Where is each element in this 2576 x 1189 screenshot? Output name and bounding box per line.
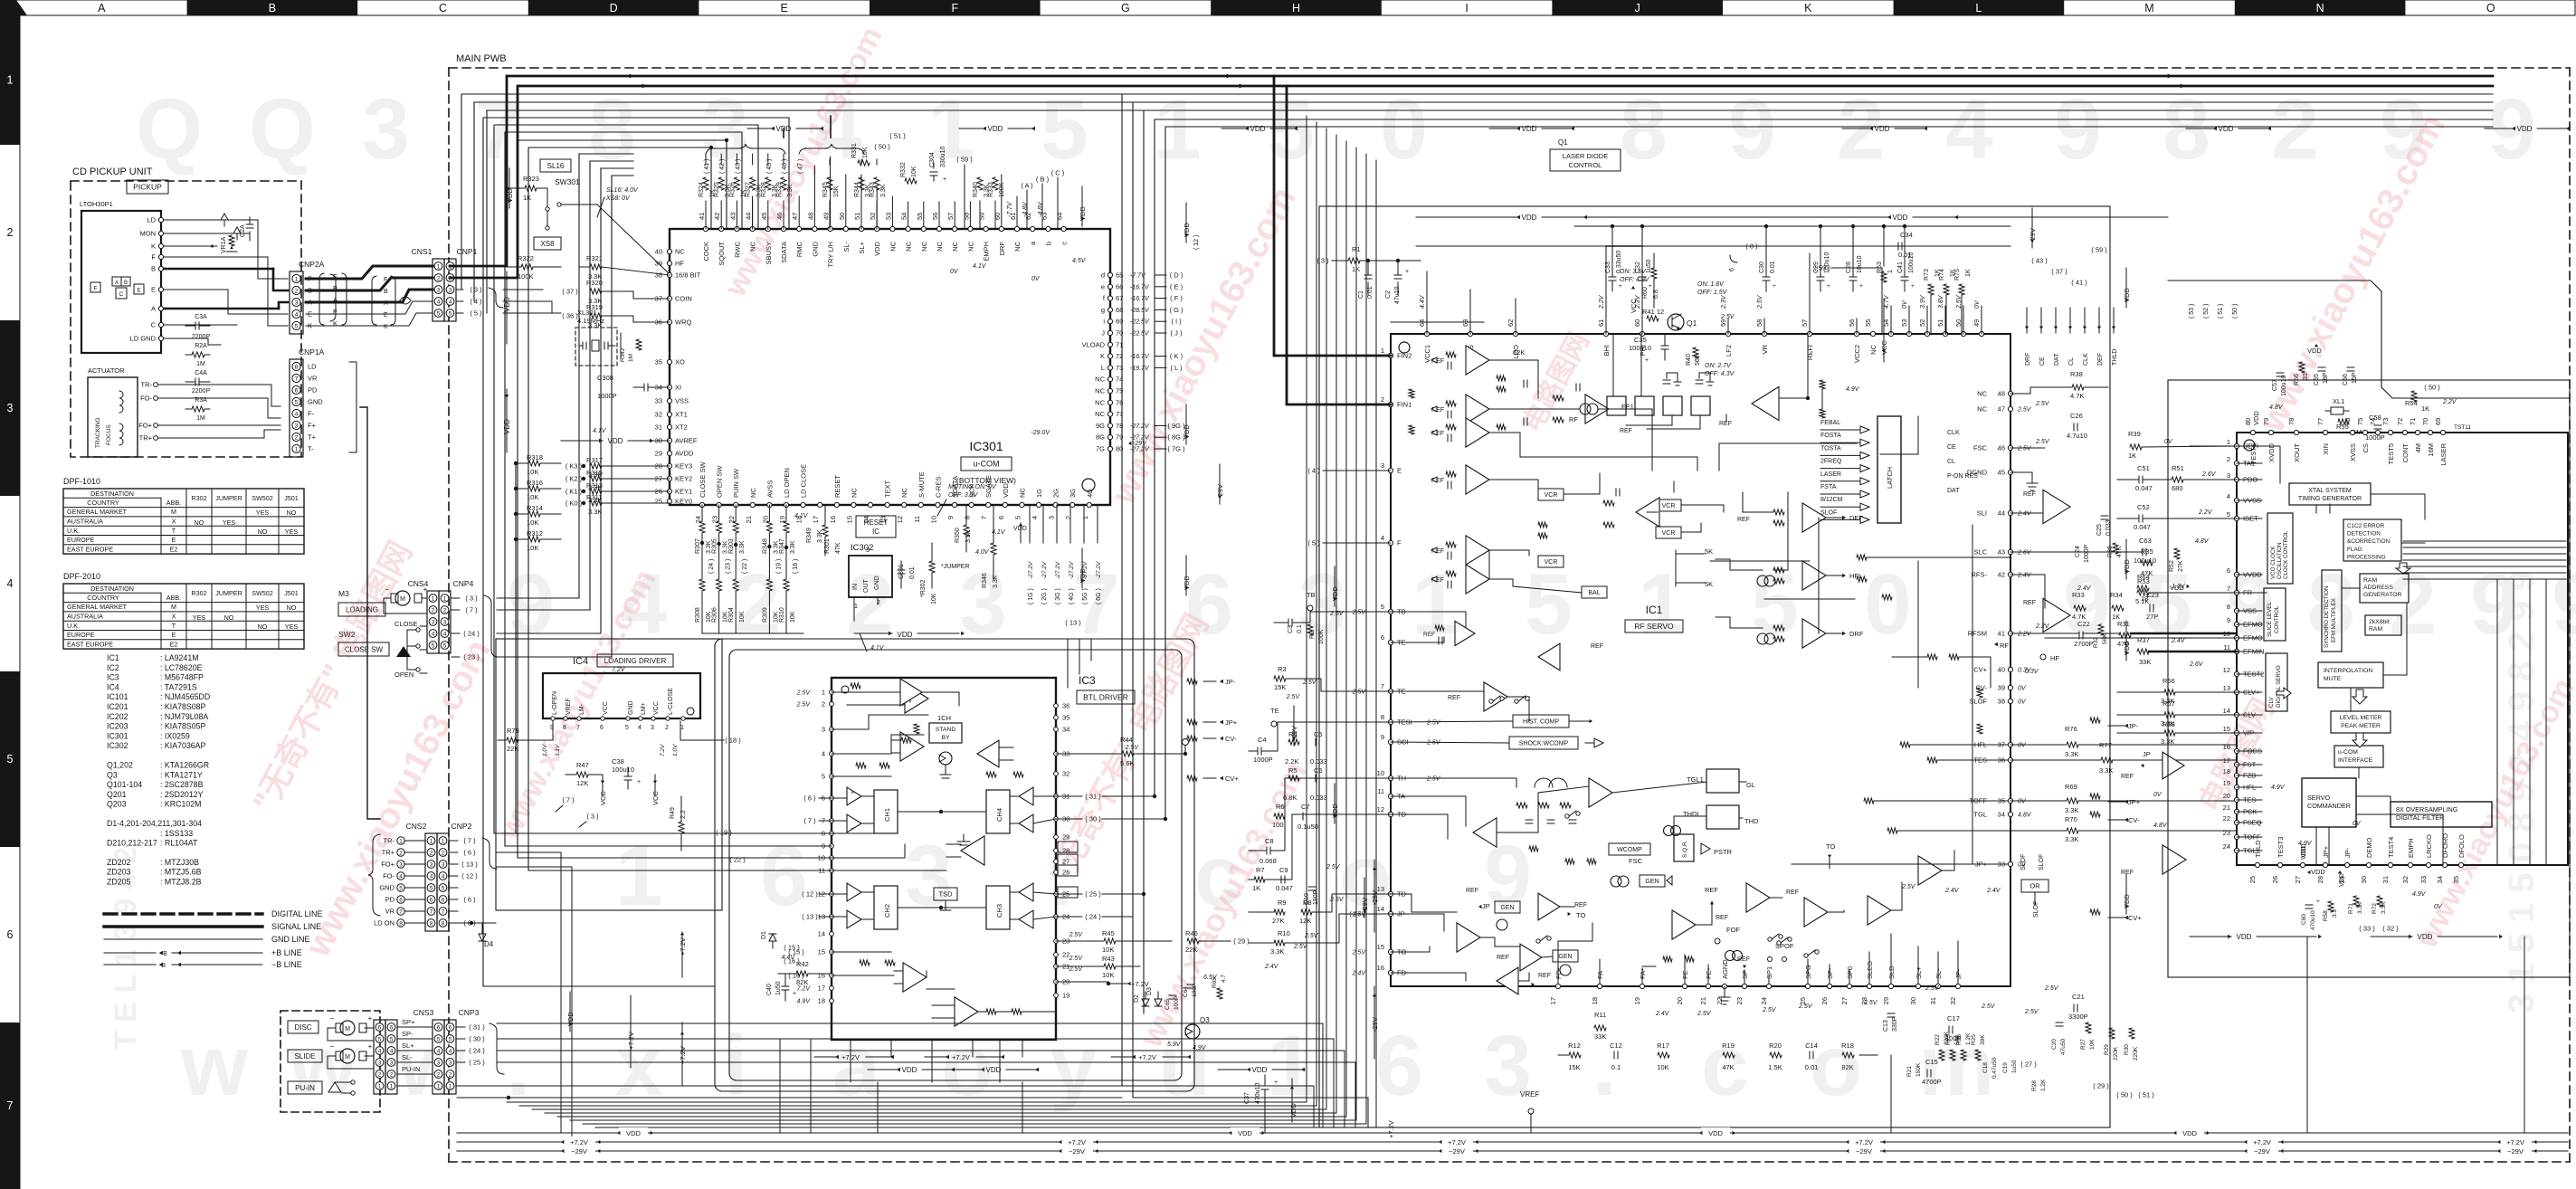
svg-text:LOADING DRIVER: LOADING DRIVER (604, 657, 667, 665)
svg-text:C: C (151, 321, 157, 329)
svg-text:TR-: TR- (141, 381, 153, 389)
svg-text:OFF: 1.5V: OFF: 1.5V (1697, 290, 1728, 296)
svg-text:2.5V: 2.5V (1720, 314, 1735, 320)
svg-text:FE: FE (1681, 970, 1689, 979)
svg-text:g: g (1101, 306, 1105, 314)
svg-text:EMPH: EMPH (2407, 838, 2415, 858)
cap gnd symbols above DACs (1663, 373, 1714, 385)
svg-text:: MTZJ5.6B: : MTZJ5.6B (160, 868, 202, 877)
svg-text:COUNTRY: COUNTRY (87, 594, 119, 602)
svg-text:T: T (172, 622, 176, 630)
svg-text:32: 32 (655, 411, 662, 419)
svg-text:9: 9 (1381, 733, 1384, 741)
sheet left ruler (0, 15, 20, 1189)
connector CNP1A (290, 347, 356, 457)
svg-text:( 27 ): ( 27 ) (2020, 1061, 2037, 1069)
svg-text:12: 12 (2223, 666, 2230, 674)
svg-text:A: A (98, 2, 106, 14)
KEY riser (515, 463, 517, 833)
svg-text:SPG: SPG (1804, 965, 1812, 979)
svg-text:( G ): ( G ) (1170, 306, 1183, 314)
svg-text:1M: 1M (628, 354, 634, 362)
svg-text:-27.2V: -27.2V (1055, 561, 1061, 579)
svg-text:B: B (124, 281, 128, 286)
svg-text:10K: 10K (1657, 1063, 1668, 1071)
svg-text:( 24 ): ( 24 ) (708, 559, 715, 574)
DEF HFL DRF opamps (1705, 503, 1864, 648)
IC2 left pins 1-24 (2223, 438, 2265, 855)
svg-text:2.4V: 2.4V (1655, 1011, 1670, 1017)
svg-text:0V: 0V (1974, 300, 1981, 309)
svg-text:CONT: CONT (2401, 443, 2410, 463)
svg-text:SLIDE: SLIDE (294, 1052, 315, 1061)
svg-text:0V: 0V (1902, 300, 1908, 309)
svg-text:R21: R21 (1906, 1066, 1913, 1077)
svg-text:SL+: SL+ (1915, 966, 1923, 979)
svg-text:100u10: 100u10 (1629, 344, 1651, 352)
riser bundle wire 5 (1165, 127, 2493, 819)
vertical VDD labels (506, 168, 2131, 1032)
svg-text:−29V: −29V (2254, 1147, 2270, 1156)
svg-text:U.K.: U.K. (67, 622, 80, 630)
svg-text:VDD: VDD (2252, 411, 2260, 425)
svg-text:RF: RF (1569, 415, 1578, 423)
svg-text:4: 4 (449, 1048, 452, 1054)
svg-text:( 29 ): ( 29 ) (2093, 1082, 2109, 1090)
svg-text:( 23 ): ( 23 ) (463, 653, 480, 661)
IC3 TSD (934, 888, 957, 910)
svg-text:R53: R53 (2137, 577, 2150, 585)
svg-text:E: E (172, 631, 176, 639)
svg-text:DFORO: DFORO (2441, 833, 2449, 858)
svg-text:18: 18 (2223, 767, 2230, 775)
svg-text:C19: C19 (2002, 1062, 2009, 1073)
svg-text:0V: 0V (2018, 699, 2027, 706)
svg-text:1: 1 (378, 1083, 382, 1089)
svg-text:SYNCHRO DETECTION: SYNCHRO DETECTION (2324, 586, 2330, 648)
svg-text:4.5V: 4.5V (1072, 258, 1087, 264)
svg-text:R31: R31 (2117, 620, 2130, 628)
svg-text:R60: R60 (1642, 287, 1649, 299)
svg-text:NC: NC (920, 241, 928, 251)
disc slide unit outline (280, 1011, 380, 1112)
svg-text:5: 5 (295, 323, 299, 329)
svg-text:4.1V: 4.1V (870, 645, 885, 652)
svg-text:0.047: 0.047 (1276, 884, 1293, 892)
svg-text:2700P: 2700P (2074, 640, 2094, 648)
IC3 opamp bottom2 (932, 997, 978, 1026)
svg-text:R6: R6 (1276, 803, 1285, 811)
svg-text:+: + (1274, 1080, 1278, 1086)
svg-text:PROCESSING: PROCESSING (2347, 554, 2386, 560)
svg-text:VDD: VDD (1893, 214, 1908, 222)
connector CNS2 CNP2 (406, 822, 472, 931)
svg-text:R47: R47 (576, 761, 589, 769)
PU-IN label (288, 1081, 322, 1094)
svg-text:0V: 0V (950, 269, 959, 275)
svg-text:+: + (368, 1014, 373, 1023)
svg-text:C308: C308 (597, 374, 613, 382)
svg-text:27P: 27P (2146, 613, 2158, 621)
svg-text:( E ): ( E ) (1170, 282, 1183, 290)
svg-text:( 3G ): ( 3G ) (1055, 588, 1061, 604)
svg-text:CV+: CV+ (1225, 775, 1239, 783)
svg-text:VCC: VCC (653, 701, 660, 715)
VDD bottom arrows IC301 (854, 631, 965, 652)
svg-text:680: 680 (2172, 484, 2183, 492)
svg-text:R66: R66 (2163, 677, 2175, 685)
svg-text:36: 36 (1062, 702, 1069, 710)
svg-text:( 24 ): ( 24 ) (463, 630, 480, 638)
svg-text:4: 4 (2227, 492, 2230, 500)
JP CV terminal arrows (1187, 678, 1239, 783)
svg-text:VDD: VDD (1238, 1129, 1252, 1137)
svg-text:NC: NC (1977, 405, 1987, 414)
svg-text:NC: NC (850, 488, 858, 498)
IC1 internal input opamps column (1431, 346, 1525, 594)
svg-text:EMPH: EMPH (983, 242, 991, 262)
svg-text:VCC: VCC (603, 701, 609, 715)
svg-text:: 1SS133: : 1SS133 (160, 829, 193, 838)
svg-text:2.4V: 2.4V (2171, 638, 2186, 644)
IC3 right inner opamp (977, 740, 1023, 777)
IC2 top pins 80-69 (2244, 418, 2471, 466)
D2 D3 C64 C65 R65 Q3 (1056, 975, 1227, 1051)
svg-text:( 25 ): ( 25 ) (1085, 890, 1101, 899)
wires pickup to CNP2A (164, 220, 288, 345)
svg-text:EFM MULTIPLEX: EFM MULTIPLEX (2331, 598, 2337, 642)
svg-text:( 5G ): ( 5G ) (1082, 588, 1088, 604)
bus arrows (630, 73, 2184, 88)
svg-text:38: 38 (1998, 698, 2005, 706)
svg-text:R39: R39 (2128, 430, 2141, 438)
svg-text:4: 4 (430, 873, 433, 880)
svg-text:PEAK METER: PEAK METER (2341, 723, 2381, 729)
svg-text:2.6V: 2.6V (2189, 661, 2204, 668)
svg-text:4: 4 (822, 750, 825, 758)
LATCH right signals (1947, 430, 1978, 494)
svg-text:( 50 ): ( 50 ) (2424, 384, 2440, 392)
FOF opamps (1672, 883, 1799, 944)
svg-text:E2: E2 (170, 640, 178, 648)
svg-text:( 43 ): ( 43 ) (2031, 257, 2048, 265)
CNP2 riser wires (497, 852, 572, 1142)
svg-text:58: 58 (1755, 319, 1763, 327)
switch SW2 (338, 620, 427, 679)
svg-text:( 7 ): ( 7 ) (562, 796, 575, 804)
CNS1 bracket wires (503, 290, 561, 313)
8X OVERSAMPLING DIGITAL FILTER (2391, 802, 2492, 827)
svg-text:C5: C5 (1314, 730, 1323, 738)
svg-text:YES: YES (285, 623, 299, 631)
right corner wire to crystal (2168, 281, 2570, 398)
svg-text:MUTING ON: 0V: MUTING ON: 0V (948, 484, 997, 490)
svg-text:−B LINE: −B LINE (271, 960, 302, 969)
svg-text:HF: HF (2050, 654, 2059, 662)
svg-text:Q: Q (249, 81, 316, 177)
svg-text:2: 2 (846, 556, 894, 652)
svg-text:4: 4 (442, 873, 445, 880)
svg-text:VDD: VDD (873, 241, 881, 255)
svg-text:19: 19 (1062, 992, 1069, 1000)
svg-text:TO: TO (1576, 911, 1585, 919)
svg-text:46: 46 (775, 213, 784, 220)
svg-text:x: x (615, 1018, 663, 1114)
svg-text:E: E (151, 286, 156, 294)
svg-text:: NJM4565DD: : NJM4565DD (160, 692, 210, 701)
svg-text:TEXT: TEXT (884, 480, 892, 498)
IC3 CH2 block (832, 883, 986, 929)
IC301 bottom pins 24-1 (694, 461, 1094, 523)
CLV DIGITAL SERVO (2266, 653, 2287, 711)
svg-text:−29V: −29V (571, 1147, 587, 1156)
svg-text:VDD: VDD (988, 125, 1003, 133)
svg-text:0.047: 0.047 (2134, 523, 2151, 531)
svg-text:20: 20 (1676, 997, 1684, 1004)
svg-text:4G: 4G (1086, 489, 1094, 498)
svg-text:26: 26 (1820, 997, 1829, 1004)
svg-text:LD: LD (308, 363, 317, 371)
svg-text:( 51 ): ( 51 ) (2218, 304, 2224, 319)
svg-text:3: 3 (959, 556, 1007, 652)
svg-text:2.4V: 2.4V (1944, 888, 1960, 894)
svg-text:REF: REF (1448, 695, 1460, 701)
resistor R319 (562, 303, 670, 329)
svg-text:VDD: VDD (1252, 1066, 1268, 1074)
svg-text:5K: 5K (1705, 547, 1713, 556)
svg-text:77: 77 (2316, 418, 2324, 425)
svg-text:( L ): ( L ) (1170, 364, 1183, 372)
svg-text:6: 6 (442, 897, 445, 903)
CNP1 out brackets (457, 286, 503, 318)
svg-text:S.Q.R.: S.Q.R. (1682, 840, 1688, 858)
svg-text:REF: REF (1423, 632, 1435, 638)
svg-text:LASER DIODE: LASER DIODE (1563, 152, 1608, 160)
SL16 SW301 XS8 (534, 159, 668, 272)
svg-text:w: w (180, 1018, 249, 1114)
svg-text:4: 4 (437, 1048, 441, 1054)
svg-text:JP: JP (2143, 750, 2151, 758)
pu-in switch (328, 1080, 355, 1095)
svg-text:SLI: SLI (1977, 509, 1987, 518)
svg-text:9G: 9G (1096, 422, 1105, 430)
svg-text:6: 6 (997, 516, 1005, 519)
svg-text:75: 75 (2356, 418, 2364, 425)
svg-text:D1: D1 (761, 931, 767, 939)
svg-text:VCC1: VCC1 (1423, 345, 1431, 363)
svg-text:SP-: SP- (1826, 967, 1834, 979)
MAIN PWB board outline (449, 53, 2570, 1162)
svg-text:3.3K: 3.3K (880, 184, 887, 197)
svg-text:( 4 ): ( 4 ) (1307, 467, 1320, 475)
svg-text:2.5V: 2.5V (1352, 950, 1367, 956)
svg-text:-29V: -29V (1133, 441, 1147, 447)
svg-text:SL-: SL- (842, 241, 851, 252)
svg-text:KEY2: KEY2 (675, 475, 692, 483)
svg-text:20: 20 (761, 516, 769, 523)
svg-text:WRQ: WRQ (675, 319, 691, 327)
C25 R36 C24 (2010, 516, 2153, 592)
svg-text:FD-: FD- (1554, 967, 1563, 979)
svg-text:SL+: SL+ (858, 241, 866, 253)
svg-text:C1C2 ERROR: C1C2 ERROR (2347, 523, 2385, 529)
TO antenna right (1826, 842, 1835, 869)
IC301 left pins 40-25 (655, 248, 701, 506)
svg-text:IC301: IC301 (107, 731, 128, 740)
svg-text:6: 6 (378, 1024, 382, 1031)
svg-text:25: 25 (655, 498, 662, 506)
svg-text:7: 7 (442, 908, 445, 915)
svg-text:4.4V: 4.4V (1420, 294, 1426, 309)
svg-text:2FREQ: 2FREQ (1820, 459, 1842, 465)
svg-text:2.2V: 2.2V (2017, 632, 2032, 638)
svg-text:100K: 100K (518, 272, 534, 281)
IC3 section enclosure (715, 639, 1194, 1091)
svg-text:R32: R32 (2093, 637, 2099, 648)
svg-text:IC101: IC101 (107, 692, 128, 701)
svg-text:100u10: 100u10 (2134, 556, 2156, 565)
svg-text:100u10: 100u10 (612, 766, 634, 774)
svg-text:17: 17 (1549, 997, 1557, 1004)
svg-text:3: 3 (866, 547, 870, 554)
svg-text:A: A (115, 281, 119, 286)
svg-text:DGND: DGND (1967, 469, 1988, 477)
svg-text:T: T (172, 527, 176, 535)
parts list (107, 653, 210, 887)
thick bus drop to FIN1 (1287, 86, 1391, 404)
svg-text:100: 100 (1272, 821, 1284, 829)
svg-text:( 13 ): ( 13 ) (802, 913, 818, 921)
u-COM INTERFACE (2334, 746, 2383, 767)
svg-text:AUSTRALIA: AUSTRALIA (67, 518, 103, 526)
svg-text:PU-IN: PU-IN (402, 1065, 420, 1073)
-29V labels right of IC3 (1349, 860, 1395, 1138)
svg-text:10K: 10K (2089, 1039, 2096, 1050)
svg-text:3G: 3G (1069, 489, 1077, 498)
svg-text:12: 12 (1377, 805, 1384, 813)
svg-text:69: 69 (2434, 418, 2442, 425)
svg-text:( 59 ): ( 59 ) (956, 156, 973, 164)
svg-text:: IX0259: : IX0259 (160, 731, 190, 740)
svg-text:0.047: 0.047 (2135, 484, 2153, 492)
svg-text:COCK: COCK (702, 242, 710, 262)
AVREF VDD feed (561, 428, 670, 445)
svg-text:R345: R345 (822, 182, 829, 197)
svg-text:1: 1 (1412, 556, 1459, 652)
svg-text:2: 2 (295, 434, 299, 441)
SLI opamp (2010, 490, 2070, 523)
svg-text:C15: C15 (1925, 1058, 1938, 1066)
svg-text:16: 16 (1377, 964, 1384, 972)
svg-text:4: 4 (432, 631, 435, 637)
svg-text:DESTINATION: DESTINATION (90, 585, 134, 593)
svg-text:17: 17 (2223, 756, 2230, 765)
svg-text:REF: REF (1591, 643, 1603, 650)
IC3 internal wires (832, 679, 1056, 1014)
svg-text:NC: NC (749, 488, 757, 498)
svg-text:39: 39 (1998, 684, 2005, 692)
svg-text:8: 8 (563, 725, 566, 731)
svg-text:63: 63 (1461, 319, 1469, 327)
svg-text:( 6G ): ( 6G ) (1096, 588, 1102, 604)
svg-text:+B: +B (159, 951, 167, 957)
svg-text:C34: C34 (1900, 231, 1913, 239)
svg-text:+7.2V: +7.2V (1855, 1138, 1873, 1146)
svg-text:D1-4,201-204,211,301-304: D1-4,201-204,211,301-304 (107, 819, 202, 828)
svg-text:3: 3 (430, 861, 433, 868)
svg-text:5: 5 (378, 1036, 382, 1042)
svg-text:R347: R347 (779, 538, 785, 554)
svg-text:NC: NC (889, 241, 897, 251)
svg-text:16M: 16M (2427, 443, 2435, 457)
svg-text:FEBAL: FEBAL (1820, 420, 1840, 426)
svg-text:XTAL SYSTEM: XTAL SYSTEM (2308, 488, 2352, 494)
svg-text:72: 72 (2396, 418, 2404, 425)
svg-text:XS8: XS8 (540, 240, 555, 248)
IC3 internal opamp row1 (892, 732, 924, 761)
svg-text:: LC78620E: : LC78620E (160, 663, 203, 672)
svg-text:( I ): ( I ) (1171, 318, 1182, 326)
svg-text:48: 48 (806, 213, 814, 220)
svg-text:VR: VR (1761, 344, 1769, 354)
IC1 FE1 opamp (1553, 384, 1634, 434)
svg-text:5.1K: 5.1K (2135, 597, 2149, 605)
capacitor C3A (185, 314, 210, 340)
resistor R2A (185, 343, 210, 367)
svg-text:40: 40 (655, 248, 662, 256)
svg-text:R18: R18 (1841, 1042, 1854, 1050)
svg-text:7: 7 (399, 908, 403, 915)
svg-text:PU-IN: PU-IN (295, 1084, 315, 1092)
svg-text:1: 1 (822, 689, 825, 697)
svg-text:43: 43 (728, 213, 737, 220)
wire K (306, 313, 433, 326)
svg-text:7: 7 (430, 908, 433, 915)
svg-text:( 30 ): ( 30 ) (469, 1035, 485, 1043)
svg-text:( 3 ): ( 3 ) (1317, 257, 1329, 265)
CNP4 bracket risers (497, 154, 633, 657)
svg-text:F-: F- (308, 410, 315, 418)
wire FSC to IC2 (2142, 446, 2237, 447)
svg-text:R344: R344 (854, 182, 860, 197)
svg-text:8: 8 (1381, 713, 1384, 721)
LATCH block (1820, 416, 1901, 523)
svg-text:VDD: VDD (2219, 125, 2234, 133)
pickup block (81, 211, 164, 353)
svg-text:TSD: TSD (939, 890, 954, 899)
svg-text:C4: C4 (1258, 736, 1267, 744)
svg-text:10K: 10K (931, 593, 937, 604)
svg-text:2.2V: 2.2V (2035, 623, 2050, 630)
svg-text:4: 4 (7, 577, 14, 590)
svg-text:8G: 8G (1096, 433, 1105, 442)
svg-text:1K: 1K (1252, 884, 1260, 892)
IC3 left pins (796, 689, 834, 1005)
svg-text:R45: R45 (1102, 929, 1115, 937)
svg-text:*JUMPER: *JUMPER (941, 564, 970, 570)
svg-text:N: N (2316, 2, 2324, 14)
svg-text:42: 42 (1998, 571, 2005, 579)
svg-text:3.3K: 3.3K (817, 529, 823, 543)
bracket cluster top right (2031, 246, 2239, 319)
svg-text:56: 56 (1848, 319, 1856, 327)
svg-text:REF: REF (1705, 886, 1718, 894)
svg-text:R74: R74 (1939, 269, 1945, 281)
motor M3 (338, 585, 428, 616)
svg-text:CLK: CLK (1947, 430, 1960, 436)
svg-text:( 50 ): ( 50 ) (874, 143, 890, 151)
capacitor C301 (898, 561, 916, 588)
